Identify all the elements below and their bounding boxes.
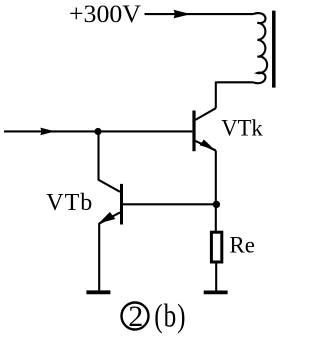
ground right bbox=[204, 290, 228, 294]
ground left bbox=[86, 290, 110, 294]
wire input rail bbox=[4, 130, 192, 132]
transistor VTk emitter arrow bbox=[200, 140, 215, 150]
node input junction bbox=[94, 128, 101, 135]
arrow on top rail bbox=[174, 10, 191, 19]
transistor VTb emitter lead bbox=[99, 212, 120, 290]
wire VTb collector from input node bbox=[99, 133, 121, 192]
node emitter junction bbox=[213, 201, 220, 208]
wire VTb base to emitter node bbox=[123, 203, 217, 205]
resistor Re bbox=[211, 232, 221, 262]
arrow on input rail bbox=[40, 128, 55, 136]
wire from inductor bottom to VTk collector bbox=[216, 82, 253, 108]
transistor VTk collector lead bbox=[195, 108, 215, 120]
inductor core bar bbox=[272, 11, 276, 88]
transistor VTk emitter lead bbox=[195, 141, 215, 151]
figure number circle bbox=[122, 303, 149, 330]
svg-text:2: 2 bbox=[128, 300, 143, 333]
inductor L1 winding bbox=[253, 13, 267, 83]
svg-text:+300V: +300V bbox=[69, 0, 141, 28]
svg-text:VTk: VTk bbox=[221, 115, 263, 140]
wire top rail from +300V to transformer bbox=[145, 13, 254, 15]
svg-text:VTb: VTb bbox=[46, 190, 93, 216]
transistor VTk base bar bbox=[192, 111, 195, 152]
wire VTk emitter down through node to resistor bbox=[215, 151, 217, 231]
svg-text:(b): (b) bbox=[154, 298, 186, 334]
svg-text:Re: Re bbox=[229, 233, 255, 258]
transistor VTb base bar bbox=[120, 184, 123, 225]
wire resistor to ground bbox=[215, 264, 217, 291]
transistor VTb emitter arrow bbox=[99, 212, 116, 223]
